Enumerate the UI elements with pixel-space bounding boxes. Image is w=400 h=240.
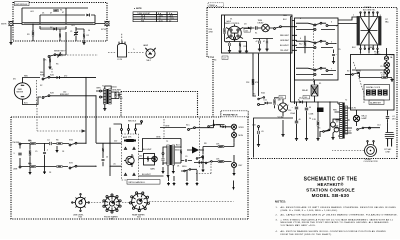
svg-text:D12: D12 <box>299 98 302 100</box>
terminal stubs with grounds <box>169 170 198 181</box>
power chassis box <box>254 118 294 158</box>
svg-text:C1: C1 <box>70 31 72 33</box>
svg-text:47: 47 <box>62 12 64 14</box>
svg-text:D11: D11 <box>264 100 267 102</box>
diode D2 <box>53 28 56 31</box>
mechanical link dashes <box>52 55 98 73</box>
capacitor C10 <box>229 43 230 46</box>
resistor R14 <box>252 79 254 84</box>
svg-text:RED BLK: RED BLK <box>128 121 137 123</box>
junction dots power <box>296 101 297 102</box>
svg-text:PHONE PATCH: PHONE PATCH <box>223 113 238 116</box>
svg-text:□ THIS SYMBOL INDICATES A POSI: □ THIS SYMBOL INDICATES A POSITIVE DC VO… <box>281 218 394 221</box>
svg-text:2: 2 <box>288 105 289 107</box>
svg-text:BLU-WHT: BLU-WHT <box>280 45 289 47</box>
svg-text:DELAY: DELAY <box>258 21 265 24</box>
T2 bottom grounds <box>168 165 173 174</box>
pilot lamp PL2 <box>384 69 389 74</box>
capacitor C11 <box>255 26 257 29</box>
svg-text:PATCH GAIN NULL: PATCH GAIN NULL <box>129 181 146 184</box>
diode D10 <box>248 27 251 30</box>
svg-text:BLU-WHT: BLU-WHT <box>142 174 151 176</box>
line terminal 2 <box>19 166 21 168</box>
svg-text:6: 6 <box>300 38 301 40</box>
svg-text:S3: S3 <box>347 71 349 73</box>
svg-text:RED: RED <box>369 47 374 49</box>
resistor R15 <box>274 99 276 104</box>
capacitor C23 <box>101 159 104 160</box>
resistor R26 <box>102 148 104 153</box>
resistor R22 <box>29 150 31 155</box>
ground <box>48 65 51 68</box>
svg-text:RELAY: RELAY <box>302 89 309 92</box>
svg-text:100: 100 <box>63 92 66 94</box>
svg-text:220: 220 <box>114 141 117 143</box>
svg-text:.047: .047 <box>225 42 229 44</box>
resistor R13 <box>382 77 387 79</box>
svg-text:Q1: Q1 <box>132 156 135 158</box>
svg-text:680: 680 <box>29 141 32 143</box>
svg-text:RCVR: RCVR <box>101 29 107 31</box>
heater circles V3 <box>331 122 336 127</box>
svg-text:PWR: PWR <box>40 74 45 76</box>
capacitor C21 <box>43 152 46 153</box>
svg-text:NE-2: NE-2 <box>147 60 151 62</box>
power transformer T4 <box>353 10 381 55</box>
svg-text:C16B: C16B <box>309 114 314 116</box>
pickup line element <box>13 22 105 24</box>
wires from timer box down <box>230 54 259 96</box>
resistor R21 <box>30 166 35 168</box>
heater wires <box>291 17 295 105</box>
pot R27 <box>152 156 158 162</box>
diode D3 <box>56 76 59 79</box>
pot R4 sensitivity <box>57 53 62 58</box>
rotary switch S1B rear wafer <box>129 192 149 219</box>
svg-text:R2: R2 <box>87 35 89 37</box>
voltage box 150 <box>279 96 286 100</box>
clock motor B1 <box>364 141 379 164</box>
module resistor R25 <box>126 139 133 141</box>
resistor R1 <box>53 10 58 12</box>
mech link vertical <box>199 118 201 168</box>
svg-text:NOTES:: NOTES: <box>275 200 286 204</box>
svg-text:40: 40 <box>299 119 301 121</box>
switch S4 <box>357 127 364 130</box>
feedback loop <box>144 154 155 166</box>
resistor R3 <box>32 31 34 36</box>
svg-text:C14: C14 <box>377 125 380 127</box>
svg-text:HEATHKIT®: HEATHKIT® <box>317 182 344 187</box>
rotary switch S1A front wafer <box>103 194 121 221</box>
svg-text:115V: 115V <box>159 20 164 22</box>
svg-text:XMTR: XMTR <box>1 23 7 25</box>
rectifier block <box>317 108 324 113</box>
svg-text:GAIN: GAIN <box>150 168 155 171</box>
T2 left leads <box>163 147 167 165</box>
svg-text:470: 470 <box>64 75 67 77</box>
svg-text:T2: T2 <box>166 141 168 143</box>
svg-text:FROM THE FRONT (END OF THE SHA: FROM THE FRONT (END OF THE SHAFT). <box>281 233 333 236</box>
svg-text:RED: RED <box>333 110 338 112</box>
transformer T1 <box>102 86 111 105</box>
value labels texture <box>20 11 388 174</box>
svg-text:115V: 115V <box>347 131 352 133</box>
warning triangles <box>124 147 126 149</box>
neon lamp NE1 <box>145 48 156 62</box>
relay contacts set 2 <box>314 40 322 44</box>
mech link dashed in clock box <box>354 62 365 104</box>
diode D21 <box>222 125 225 128</box>
switch S5 <box>258 97 265 100</box>
svg-text:POWER: POWER <box>364 7 372 9</box>
svg-text:105: 105 <box>245 30 248 32</box>
resistor R2 <box>83 34 85 39</box>
line terminal 1 <box>19 143 21 145</box>
svg-text:7: 7 <box>277 105 278 107</box>
timer label box <box>208 3 224 7</box>
svg-text:R5: R5 <box>56 64 58 66</box>
switch S7d <box>196 156 203 159</box>
resistor R32 <box>202 155 204 159</box>
svg-text:ALL SWITCH WAFERS SHOWN IN FUL: ALL SWITCH WAFERS SHOWN IN FULL COUNTERC… <box>281 230 387 233</box>
svg-text:LINE: LINE <box>386 151 391 153</box>
svg-text:SWR BRIDGE: SWR BRIDGE <box>15 4 28 6</box>
junction dots extra <box>65 23 66 24</box>
wire to switches <box>163 139 181 148</box>
svg-text:T1: T1 <box>102 86 104 88</box>
svg-text:.05: .05 <box>261 131 264 133</box>
potentiometer R33 line level <box>72 194 90 219</box>
switch S7a <box>69 142 77 146</box>
svg-text:LAMPS: LAMPS <box>374 53 381 56</box>
svg-text:3: 3 <box>331 22 332 24</box>
ground x3 in timer box <box>228 49 231 52</box>
svg-text:R33: R33 <box>79 217 82 219</box>
mech dashes between <box>108 33 144 53</box>
voltage box 140 <box>303 96 310 100</box>
svg-text:S1C: S1C <box>186 125 190 127</box>
capacitor C15 <box>258 131 260 134</box>
diode D20 <box>199 161 202 164</box>
svg-text:T2: T2 <box>345 100 347 102</box>
switch S7b <box>69 165 77 169</box>
bridge wire top <box>22 8 95 22</box>
phone patch enclosure <box>11 111 248 219</box>
svg-text:7: 7 <box>331 69 332 71</box>
diode D12 <box>299 101 302 104</box>
texture labels and junction dots <box>13 7 390 171</box>
svg-text:ALL CAPACITOR VALUES ARE IN μF: ALL CAPACITOR VALUES ARE IN μF UNLESS MA… <box>281 214 398 217</box>
svg-text:LAMP: LAMP <box>143 44 149 47</box>
svg-text:RED: RED <box>283 15 288 17</box>
terminal row <box>258 126 260 128</box>
notes <box>275 200 398 237</box>
ground below T1 <box>103 107 106 110</box>
svg-text:R8: R8 <box>204 143 206 145</box>
svg-text:TIMER ▲: TIMER ▲ <box>209 4 217 7</box>
svg-text:RED: RED <box>24 76 29 78</box>
note table <box>133 7 178 22</box>
capacitor C20 <box>19 145 21 166</box>
capacitor C12 electrolytic <box>333 50 335 54</box>
filter capacitors <box>253 39 273 41</box>
phone jack J3 <box>231 132 243 137</box>
svg-text:VOLTAGES MAY VARY ±20%.: VOLTAGES MAY VARY ±20%. <box>281 224 317 227</box>
svg-text:3.: 3. <box>276 219 278 221</box>
resistor R30 <box>218 146 224 148</box>
svg-text:.001: .001 <box>71 25 75 27</box>
svg-text:10: 10 <box>106 157 108 159</box>
svg-text:47: 47 <box>50 13 52 15</box>
svg-text:R12: R12 <box>299 44 302 46</box>
resistor R10 <box>224 28 226 33</box>
svg-text:R3: R3 <box>27 34 29 36</box>
svg-text:140: 140 <box>304 97 307 99</box>
svg-text:PL1: PL1 <box>381 66 384 68</box>
capacitor C2 <box>118 95 121 96</box>
junction dots phone rows <box>29 143 30 144</box>
svg-text:D3: D3 <box>244 24 246 26</box>
svg-text:GRN: GRN <box>334 126 339 128</box>
svg-text:K1: K1 <box>319 83 321 85</box>
svg-text:-0.5: -0.5 <box>223 58 226 60</box>
svg-text:.001: .001 <box>30 11 34 13</box>
switch S2a <box>48 54 56 58</box>
svg-text:K1: K1 <box>255 33 257 35</box>
svg-text:GRN-WHT: GRN-WHT <box>112 90 122 92</box>
jack J5 <box>231 124 244 129</box>
B+ wire <box>291 102 339 104</box>
svg-text:47: 47 <box>263 41 265 43</box>
svg-text:BLK GRN YEL: BLK GRN YEL <box>363 10 375 12</box>
coax connector J2 <box>105 21 110 26</box>
svg-text:S2: S2 <box>40 85 42 87</box>
amp arrow <box>192 147 199 154</box>
relay mech link <box>313 25 315 84</box>
ground row <box>295 137 298 140</box>
svg-text:SENSITIVITY: SENSITIVITY <box>54 51 66 53</box>
svg-text:YEL-WHT: YEL-WHT <box>280 50 289 52</box>
bottom connector row <box>127 180 160 185</box>
svg-text:ALARM SET: ALARM SET <box>370 101 382 104</box>
amplifier module enclosure <box>122 134 139 180</box>
wire under pickup <box>40 26 66 28</box>
svg-text:SPKR: SPKR <box>239 127 245 129</box>
meter wires <box>23 78 42 105</box>
switch S3 <box>352 72 359 75</box>
relay contacts set 3 <box>314 67 322 71</box>
title block <box>304 176 358 198</box>
resistor R11 <box>239 43 241 48</box>
svg-text:47: 47 <box>256 41 258 43</box>
svg-text:S6: S6 <box>318 128 320 130</box>
svg-text:GRN-WHT: GRN-WHT <box>280 40 290 42</box>
svg-text:S5: S5 <box>253 94 255 96</box>
svg-text:.1: .1 <box>47 150 49 152</box>
module right wiring <box>139 139 162 159</box>
power transformer T3 <box>333 103 350 139</box>
svg-text:4: 4 <box>300 18 301 20</box>
svg-text:BRN-WHT: BRN-WHT <box>60 94 70 96</box>
svg-text:C16A: C16A <box>290 112 295 115</box>
diode D1 <box>86 14 89 17</box>
svg-text:R11: R11 <box>244 46 247 48</box>
svg-text:C4: C4 <box>47 140 49 142</box>
wire sens to switch <box>43 58 45 77</box>
timer circuit box <box>222 15 293 53</box>
voltage box 0V <box>222 56 228 60</box>
ground below bridge <box>82 41 85 44</box>
svg-text:ALL RESISTORS ARE 1/2 WATT UNL: ALL RESISTORS ARE 1/2 WATT UNLESS MARKED… <box>281 206 397 209</box>
svg-text:MEGOHM VTVM, FROM THE POINT IN: MEGOHM VTVM, FROM THE POINT INDICATED TO… <box>281 221 389 224</box>
capacitor C14 <box>387 110 389 116</box>
harness enclosure <box>121 92 198 118</box>
grounds phone line <box>56 146 58 149</box>
svg-text:CLOCK MOTOR: CLOCK MOTOR <box>364 161 379 163</box>
capacitor C24 <box>161 159 164 160</box>
resistor R24 <box>57 166 62 168</box>
svg-text:PHONE: PHONE <box>13 142 20 144</box>
svg-text:MON: MON <box>239 135 244 137</box>
resistor R20 <box>30 143 35 145</box>
mech link clock motor <box>332 150 364 152</box>
svg-text:8: 8 <box>380 15 381 17</box>
bridge lower wires <box>48 27 84 41</box>
svg-text:5: 5 <box>331 42 332 44</box>
svg-text:2.: 2. <box>276 215 278 217</box>
svg-text:STATION CONSOLE: STATION CONSOLE <box>306 187 355 192</box>
svg-text:150: 150 <box>288 110 291 112</box>
bottom wire out <box>122 176 164 180</box>
svg-text:LAMP: LAMP <box>362 117 368 120</box>
mech link to jacks <box>196 164 211 174</box>
capacitor C1 trimmer <box>74 32 78 36</box>
meter M1 <box>14 83 30 99</box>
T2 right leads <box>175 147 181 163</box>
fuse F1 <box>384 48 395 62</box>
svg-text:500: 500 <box>139 156 142 158</box>
svg-text:V3: V3 <box>336 122 338 124</box>
svg-text:GRN: GRN <box>156 137 161 139</box>
switch S2b <box>42 76 50 80</box>
resistor R28 <box>147 157 149 161</box>
SWR bridge label box <box>15 2 30 6</box>
resistor R16 <box>317 102 319 120</box>
svg-text:GRN: GRN <box>165 125 170 127</box>
capacitor C22 <box>50 142 52 145</box>
resistor R6 <box>115 93 117 98</box>
ground at J1 <box>10 26 12 41</box>
svg-text:.05: .05 <box>113 164 116 166</box>
svg-text:PL2: PL2 <box>381 73 384 75</box>
svg-text:25: 25 <box>339 49 341 51</box>
diode D11 <box>265 102 268 105</box>
svg-text:V2 0A2: V2 0A2 <box>278 116 284 119</box>
coax connector J1 <box>9 21 14 26</box>
wires transformer to relay box <box>338 17 357 24</box>
neon lamp NE2 <box>353 115 359 121</box>
svg-text:M1: M1 <box>13 79 16 81</box>
svg-text:(OHM: Ω = OHM, K = 1,000, MEG: (OHM: Ω = OHM, K = 1,000, MEG = 1,000,00… <box>281 210 339 212</box>
svg-text:.1: .1 <box>13 153 15 155</box>
voltage box 105 <box>244 29 251 33</box>
svg-text:MODEL SB-630: MODEL SB-630 <box>312 193 350 198</box>
mechanical link meter switch <box>37 80 83 131</box>
mech link S1 vertical <box>163 119 165 138</box>
svg-text:470K: 470K <box>209 31 214 33</box>
svg-text:TIMER CONTROL: TIMER CONTROL <box>224 23 240 25</box>
svg-text:▲ NOTE: ▲ NOTE <box>134 7 143 10</box>
module terminals <box>121 129 123 131</box>
clock assembly box <box>351 55 395 111</box>
resistor R12 <box>304 41 306 46</box>
svg-text:DIGITAL CLOCK: DIGITAL CLOCK <box>366 86 381 89</box>
svg-text:BLK-WHT: BLK-WHT <box>143 149 152 151</box>
resistor R5 <box>49 58 51 62</box>
svg-text:BRN: BRN <box>97 88 102 90</box>
SWR bridge enclosure <box>13 3 107 42</box>
resistor R23 <box>57 143 62 145</box>
pilot lamp PL1 <box>384 62 389 67</box>
relay contact box <box>295 18 339 80</box>
switch S9 <box>205 161 212 164</box>
svg-text:R6: R6 <box>56 140 58 142</box>
switch S7c <box>184 169 191 172</box>
top switch row in patch <box>160 127 186 129</box>
electrolytic can C3 <box>117 41 127 61</box>
svg-text:40: 40 <box>309 107 311 109</box>
svg-text:20: 20 <box>309 118 311 120</box>
svg-text:2: 2 <box>336 26 337 28</box>
rotary mech link <box>91 202 234 203</box>
resistor R29 <box>180 150 182 155</box>
switch S6 <box>329 102 331 126</box>
tube V1 <box>224 19 243 42</box>
phone patch label box <box>221 111 248 117</box>
tube V2 <box>278 103 287 112</box>
svg-text:1: 1 <box>353 15 354 17</box>
svg-text:50: 50 <box>88 30 90 32</box>
resistor R31 <box>218 161 224 163</box>
svg-text:C3 20: C3 20 <box>117 59 122 61</box>
svg-text:4.: 4. <box>276 231 278 233</box>
svg-text:680: 680 <box>29 164 32 166</box>
relay K1 coil <box>302 80 318 102</box>
transistor Q1 <box>126 156 134 164</box>
switch arm <box>274 26 282 30</box>
filter cap C16 <box>296 102 298 106</box>
switch S8 <box>208 124 215 127</box>
svg-text:C9: C9 <box>185 156 187 158</box>
relay contacts set 1 <box>314 22 322 26</box>
svg-text:150: 150 <box>280 97 283 99</box>
transformer T2 <box>166 141 175 165</box>
line plug P1 <box>384 122 394 153</box>
svg-text:D1: D1 <box>42 13 44 15</box>
svg-text:RED-WHT: RED-WHT <box>280 35 290 37</box>
timer section enclosure <box>207 8 397 159</box>
cap C17 <box>306 102 308 107</box>
module left wiring <box>96 128 122 176</box>
svg-text:C5: C5 <box>35 151 37 153</box>
svg-text:600Ω: 600Ω <box>175 150 180 152</box>
svg-text:1.: 1. <box>276 207 278 209</box>
phone jack J4 <box>231 162 243 167</box>
vertical wire to phone section <box>86 77 96 143</box>
wire mid <box>40 26 66 29</box>
T1 terminals <box>100 90 102 92</box>
